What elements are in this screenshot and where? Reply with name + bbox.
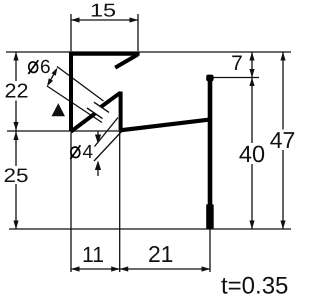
arrowhead 47 up xyxy=(280,52,285,61)
svg-text:40: 40 xyxy=(239,141,265,167)
arrowhead phi6 lower xyxy=(47,78,53,86)
arrowhead 25 up xyxy=(13,132,18,141)
arrowhead 22 down xyxy=(13,122,18,131)
arrowhead 47 down xyxy=(280,221,285,230)
arrowhead 15 left xyxy=(71,17,80,22)
profile incline upper segment xyxy=(101,93,120,107)
arrowhead 15 right xyxy=(130,17,139,22)
profile top flange xyxy=(69,51,139,55)
arrowhead phi4 up xyxy=(95,161,101,171)
profile web xyxy=(120,120,209,131)
profile incline lower segment xyxy=(71,114,95,132)
dim line 22/25 vertical x=16 xyxy=(15,52,17,81)
phi4 arrow shaft up xyxy=(97,167,99,176)
dim line 7/40 vertical x=252 xyxy=(251,52,253,78)
hole tick upper xyxy=(94,102,109,112)
arrowhead 21 right xyxy=(202,266,211,271)
hole tick lower xyxy=(87,108,103,119)
arrowhead 11 right xyxy=(111,266,120,271)
phi4 arrow shaft down xyxy=(97,131,99,137)
arrowhead 21 left xyxy=(120,266,129,271)
dim line 11/21 (y=269) xyxy=(71,268,210,270)
phi4 extension line lower xyxy=(94,131,122,161)
extension line 7-bottom (y=77.5) xyxy=(214,77,260,79)
svg-text:15: 15 xyxy=(90,0,116,21)
svg-text:6: 6 xyxy=(40,57,51,78)
arrowhead 11 left xyxy=(71,266,80,271)
phi6 extension line lower xyxy=(47,86,102,123)
svg-text:7: 7 xyxy=(231,52,243,75)
arrowhead 7 down xyxy=(249,69,254,78)
arrowhead 22 up xyxy=(13,52,18,61)
extension line top (y=52) xyxy=(6,51,291,53)
dim line 15 (y=20) xyxy=(71,19,138,21)
profile top hem diagonal xyxy=(115,55,137,68)
extension line 15-left x=71 xyxy=(70,14,72,51)
extension line baseline (y=229) xyxy=(9,228,291,230)
labels xyxy=(90,0,116,21)
extension line 11-left x=71 xyxy=(70,132,72,272)
arrowhead 40 up xyxy=(249,78,254,87)
extension line middle-left (y=131) xyxy=(7,130,120,132)
svg-text:22: 22 xyxy=(5,81,29,103)
arrowhead 40 down xyxy=(249,221,254,230)
svg-text:25: 25 xyxy=(4,165,29,187)
arrowhead 25 down xyxy=(13,221,18,230)
phi6 extension line upper xyxy=(57,67,104,102)
arrowhead phi6 upper xyxy=(52,68,58,76)
svg-text:11: 11 xyxy=(82,242,104,267)
arrowhead 7 up xyxy=(249,52,254,61)
extension line 11/21 x=119.7 xyxy=(119,131,121,272)
profile right-top stub xyxy=(206,75,213,82)
extension line 21-right x=210 xyxy=(209,229,211,272)
dim line 47 vertical x=283 xyxy=(282,52,284,130)
phi4 symbol xyxy=(70,145,81,159)
svg-text:47: 47 xyxy=(270,127,296,153)
marker triangle xyxy=(52,103,66,116)
svg-text:4: 4 xyxy=(83,142,94,163)
arrowhead phi4 down xyxy=(95,135,101,144)
extension line 15-right x=138 xyxy=(137,14,139,51)
phi4 extension line upper xyxy=(95,118,119,147)
profile peak vertical xyxy=(119,92,123,131)
profile bottom hem xyxy=(206,204,214,228)
svg-text:t=0.35: t=0.35 xyxy=(221,273,288,300)
phi6 dim arrow shaft xyxy=(48,70,57,85)
profile right vertical xyxy=(208,76,213,229)
thick profile xyxy=(69,51,210,228)
phi6 symbol xyxy=(28,60,39,74)
profile left vertical xyxy=(69,51,73,130)
svg-text:21: 21 xyxy=(148,241,174,267)
